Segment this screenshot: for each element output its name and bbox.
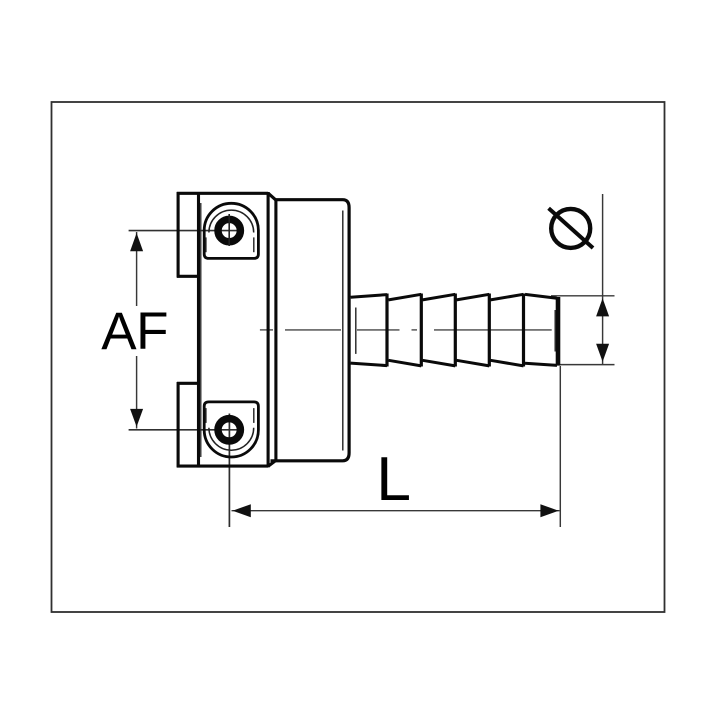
svg-text:AF: AF — [101, 302, 168, 361]
svg-text:L: L — [376, 444, 411, 514]
